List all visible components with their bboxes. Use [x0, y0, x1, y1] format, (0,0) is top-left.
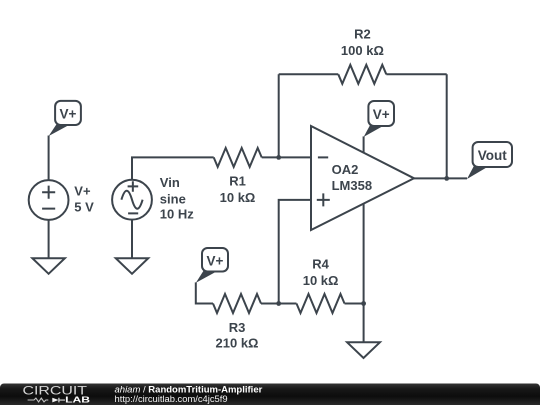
svg-text:sine: sine — [160, 192, 186, 207]
svg-text:100 kΩ: 100 kΩ — [341, 43, 384, 58]
ground (below op-amp) — [347, 342, 380, 358]
ground (under V1) — [32, 258, 65, 274]
svg-text:Vout: Vout — [478, 148, 507, 163]
junction (output / feedback) — [444, 176, 449, 181]
net flag V+ (at V1) — [49, 101, 81, 136]
wire R4 to ground node — [345, 303, 364, 305]
svg-text:Vin: Vin — [160, 175, 180, 190]
op-amp OA2 — [311, 126, 414, 230]
wire V+ flag to R3 — [196, 282, 213, 303]
svg-text:10 Hz: 10 Hz — [160, 206, 194, 221]
label R3 — [216, 320, 259, 350]
wire V2 bottom — [131, 220, 133, 259]
resistor R2 — [338, 65, 386, 84]
voltage source V2 (sine) — [112, 180, 152, 220]
svg-text:LAB: LAB — [65, 394, 90, 404]
svg-text:OA2: OA2 — [332, 162, 359, 177]
label OA2 — [332, 162, 372, 193]
svg-text:R2: R2 — [354, 27, 371, 42]
svg-text:10 kΩ: 10 kΩ — [303, 273, 339, 288]
svg-text:R4: R4 — [312, 257, 329, 272]
wire feedback down to output — [446, 74, 448, 178]
wire feedback up — [278, 74, 280, 157]
junction (R1 / feedback) — [276, 155, 281, 160]
ground (under V2) — [116, 258, 149, 274]
label R1 — [220, 174, 256, 206]
svg-text:R3: R3 — [229, 320, 246, 335]
svg-text:210 kΩ: 210 kΩ — [216, 335, 259, 350]
wire V1 bottom — [48, 220, 50, 258]
wire V1 top — [48, 136, 50, 181]
label R4 — [303, 257, 339, 289]
svg-text:V+: V+ — [74, 184, 91, 199]
wire R1 to op-amp minus input — [262, 156, 311, 158]
resistor R3 — [213, 294, 261, 313]
CircuitLab logo — [23, 384, 91, 405]
svg-text:http://circuitlab.com/c4jc5f9: http://circuitlab.com/c4jc5f9 — [115, 393, 228, 404]
net flag Vout — [467, 142, 512, 179]
svg-text:10 kΩ: 10 kΩ — [220, 190, 256, 205]
wire op-amp plus input down to R3/R4 node — [279, 200, 311, 304]
svg-text:V+: V+ — [207, 254, 224, 269]
wire feedback top left — [279, 73, 339, 75]
label R2 — [341, 27, 384, 59]
svg-text:R1: R1 — [229, 174, 246, 189]
voltage source V1 — [29, 180, 69, 220]
net flag V+ (at R3) — [196, 248, 228, 283]
svg-text:V+: V+ — [60, 106, 77, 121]
junction (R4 / ground wire) — [361, 301, 366, 306]
wire sine top to R1 — [132, 157, 214, 179]
power flag V+ (op-amp) — [364, 101, 394, 137]
label V1 value — [74, 184, 94, 215]
svg-text:5 V: 5 V — [74, 200, 94, 215]
wire op-amp output — [414, 177, 467, 179]
svg-text:LM358: LM358 — [332, 178, 372, 193]
junction (R3/R4 node) — [276, 301, 281, 306]
wire R3 to R4 — [261, 303, 297, 305]
wire feedback top right — [386, 73, 446, 75]
wire op-amp bottom power pin to ground — [363, 203, 365, 342]
resistor R4 — [297, 294, 345, 313]
footer bar — [0, 384, 540, 405]
resistor R1 — [214, 148, 262, 167]
wire op-amp top power pin — [363, 136, 365, 152]
svg-text:V+: V+ — [373, 107, 390, 122]
label V2 value — [160, 175, 194, 221]
